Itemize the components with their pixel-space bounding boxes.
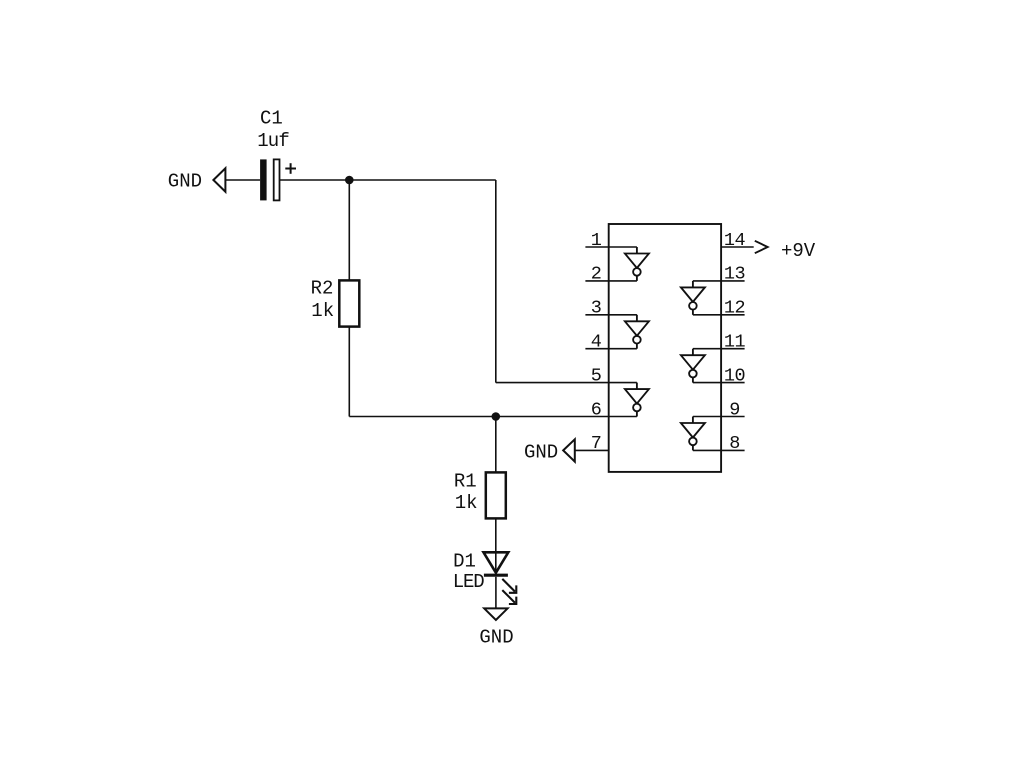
ground symbol GND (at pin 7): [563, 439, 575, 461]
ground symbol GND (bottom): [484, 608, 507, 620]
wire to pin 5 of U1: [496, 382, 637, 384]
svg-text:7: 7: [591, 433, 602, 454]
svg-text:10: 10: [724, 365, 745, 386]
svg-text:12: 12: [724, 298, 745, 319]
svg-text:GND: GND: [479, 627, 513, 649]
svg-text:1k: 1k: [455, 492, 478, 514]
LED D1: [484, 552, 509, 575]
wire D1 to ground: [495, 577, 497, 609]
pin 3: [585, 314, 637, 316]
svg-text:LED: LED: [453, 571, 484, 593]
svg-text:11: 11: [724, 332, 746, 353]
pin 10: [693, 382, 745, 384]
pin 4: [585, 348, 637, 350]
ground symbol GND (left, at C1): [213, 168, 225, 191]
pin 11: [693, 348, 745, 350]
pin 12: [693, 314, 745, 316]
wire GND flag to C1: [225, 179, 260, 181]
wire node B down to R1: [495, 417, 497, 473]
junction node B: [492, 412, 501, 421]
inverter U1B (pins 3-4): [625, 315, 649, 349]
svg-text:D1: D1: [453, 550, 476, 572]
capacitor C1 (polarized): [260, 159, 296, 200]
pin 9: [693, 416, 745, 418]
svg-text:5: 5: [591, 365, 602, 386]
pin 2: [585, 280, 637, 282]
svg-text:2: 2: [591, 264, 602, 285]
svg-text:R1: R1: [454, 470, 477, 492]
svg-text:14: 14: [724, 230, 746, 251]
svg-text:R2: R2: [311, 278, 334, 300]
junction node A: [345, 176, 354, 185]
pin 14: [721, 246, 754, 248]
svg-text:13: 13: [724, 264, 745, 285]
svg-text:GND: GND: [524, 442, 558, 464]
svg-text:1: 1: [591, 230, 602, 251]
inverter U1A (pins 1-2): [625, 247, 649, 281]
wire R2 bottom to pin6 row: [348, 327, 350, 417]
wire node A down to R2: [348, 180, 350, 280]
pin 1: [585, 246, 637, 248]
svg-text:8: 8: [729, 433, 740, 454]
LED light arrow 1: [502, 579, 516, 593]
svg-text:+9V: +9V: [781, 240, 816, 262]
power flag +9V (arrow at pin 14): [755, 241, 768, 253]
svg-text:1uf: 1uf: [257, 130, 289, 152]
wire top net vertical down to pin5 row: [495, 180, 497, 383]
inverter U1D (pins 9-8): [681, 417, 705, 451]
svg-text:4: 4: [591, 332, 602, 353]
wire C1 to corner (top net): [280, 179, 496, 181]
svg-text:GND: GND: [168, 170, 202, 192]
inverter U1F (pins 13-12): [681, 281, 705, 315]
inverter U1C (pins 5-6): [625, 383, 649, 417]
wire to pin 6 of U1: [349, 416, 637, 418]
pin 7: [575, 449, 609, 451]
resistor R2: [339, 280, 359, 326]
pin 13: [693, 280, 745, 282]
svg-text:6: 6: [591, 399, 602, 420]
wire R1 to D1: [495, 518, 497, 574]
svg-text:9: 9: [729, 399, 740, 420]
svg-text:1k: 1k: [311, 300, 334, 322]
inverter U1E (pins 11-10): [681, 349, 705, 383]
svg-text:C1: C1: [260, 108, 283, 130]
IC U1 body: [609, 224, 721, 472]
LED light arrow 2: [502, 590, 516, 604]
svg-text:3: 3: [591, 298, 602, 319]
pin 8: [693, 449, 745, 451]
resistor R1: [486, 472, 506, 518]
